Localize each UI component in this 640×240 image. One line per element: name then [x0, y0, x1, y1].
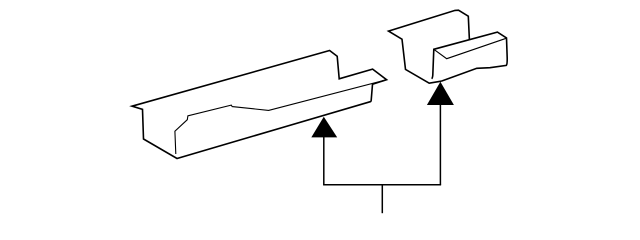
bracket rail front-top edge [434, 38, 507, 59]
arrowhead 2 (points to bracket) [427, 82, 454, 105]
bracket rail outline [432, 32, 508, 81]
center stem line [381, 185, 383, 213]
rocker panel outer contour (left long part) [132, 51, 387, 159]
rocker panel inner contour line [175, 80, 387, 154]
leader line from arrowhead 1 [323, 137, 325, 185]
arrowhead 1 (points to rocker panel) [311, 117, 337, 138]
leader line from arrowhead 2 [439, 105, 441, 185]
bracket back panel (right small part) [389, 10, 470, 83]
horizontal connector line [323, 184, 441, 186]
